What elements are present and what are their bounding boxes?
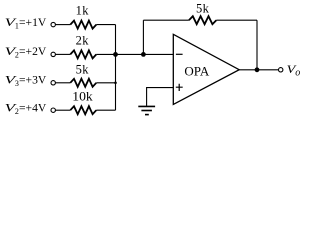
svg-text:10k: 10k [72, 90, 93, 104]
feedback wire top right [216, 19, 257, 21]
terminal node Vo [279, 68, 283, 72]
source label V2=+2V [5, 46, 47, 59]
wire [96, 109, 115, 111]
terminal node V3 [51, 81, 55, 85]
junction dot bus/row2 [113, 52, 118, 57]
op-amp plus sign [176, 84, 183, 91]
wire [55, 24, 70, 26]
svg-text:2k: 2k [76, 34, 90, 48]
op-amp minus sign [176, 53, 183, 55]
terminal node V2 [51, 52, 55, 56]
summing bus wire [115, 25, 117, 111]
output wire [239, 69, 278, 71]
wire [55, 82, 70, 84]
source label V1=+1V [5, 17, 47, 30]
wire to inverting input [96, 53, 173, 55]
wire [55, 109, 70, 111]
wire noninverting input [147, 88, 174, 106]
source label V2=+4V (as printed in original) [5, 103, 47, 116]
resistor R2 2k [70, 50, 96, 58]
feedback wire right vertical [256, 20, 258, 70]
svg-text:1k: 1k [76, 4, 90, 18]
resistor R4 10k [70, 106, 96, 114]
ground [138, 106, 155, 114]
svg-text:OPA: OPA [184, 63, 209, 78]
source label V3=+3V [5, 75, 47, 88]
svg-text:=+2V: =+2V [19, 46, 47, 58]
terminal node V4 [51, 108, 55, 112]
junction dot feedback tap [141, 52, 146, 57]
terminal node V1 [51, 22, 55, 26]
svg-text:o: o [295, 67, 300, 78]
wire [96, 24, 115, 26]
junction dot output [255, 67, 260, 72]
resistor R3 5k [70, 79, 96, 87]
wire [55, 53, 70, 55]
output label Vo [287, 64, 301, 78]
feedback wire top left [143, 19, 189, 21]
resistor Rf 5k [189, 16, 216, 24]
svg-text:=+3V: =+3V [19, 75, 47, 87]
junction dot bus/row3 [114, 82, 117, 85]
svg-text:=+1V: =+1V [19, 17, 47, 29]
svg-text:5k: 5k [76, 63, 90, 77]
svg-text:=+4V: =+4V [19, 103, 47, 115]
op-amp U1 triangle [173, 34, 239, 104]
wire [96, 82, 115, 84]
resistor R1 1k [70, 21, 96, 29]
svg-text:5k: 5k [196, 1, 210, 15]
feedback wire left vertical [142, 20, 144, 54]
